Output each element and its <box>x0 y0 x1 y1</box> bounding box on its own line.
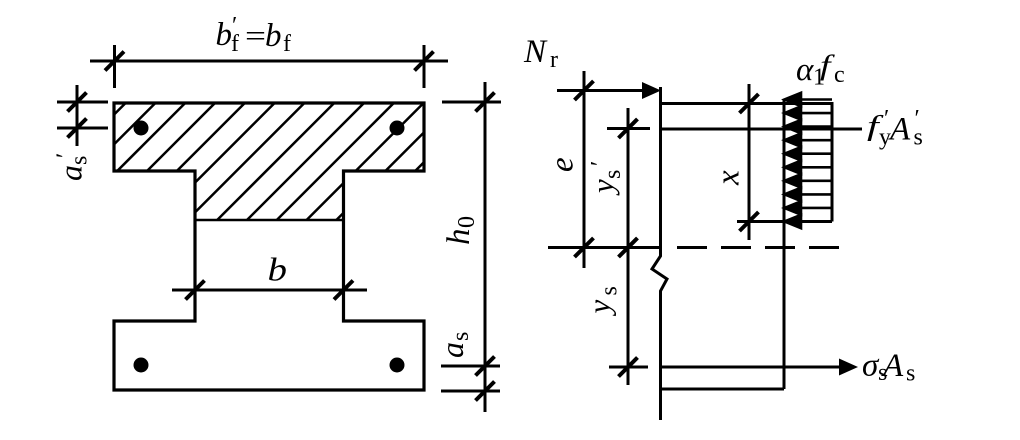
label h0 (rotated) <box>441 216 480 245</box>
Nr force line with arrow <box>557 89 646 92</box>
stress block arrows (10 left-pointing) <box>785 93 833 228</box>
svg-text:a: a <box>434 342 470 358</box>
svg-text:A: A <box>888 112 911 148</box>
tick h0 top <box>476 93 495 112</box>
dimension line x (vertical) <box>748 84 751 240</box>
tick right of b <box>334 281 353 300</box>
svg-text:e: e <box>545 157 581 172</box>
svg-text:b: b <box>265 18 282 54</box>
rebar dot top-left <box>134 121 149 136</box>
tick x top <box>740 94 759 113</box>
label sigma_s As <box>862 348 915 387</box>
tick y's bottom <box>619 238 638 257</box>
tick y's top <box>619 119 638 138</box>
section top line <box>660 102 832 105</box>
section bottom line <box>660 388 784 391</box>
label b'f = bf <box>216 13 292 57</box>
label ys (rotated) <box>582 286 623 316</box>
centroid axis: solid extension part <box>548 246 660 249</box>
svg-text:A: A <box>881 348 904 384</box>
svg-text:r: r <box>550 47 558 73</box>
tick h0 bottom / as top <box>476 357 495 376</box>
dimension a's <box>57 85 108 146</box>
stress block bottom line with x-extension <box>737 220 832 223</box>
svg-text:y: y <box>582 300 617 317</box>
label alpha1 fc <box>796 49 845 90</box>
label f'y A's <box>867 106 923 151</box>
dimension line e (vertical) <box>583 71 586 268</box>
extension line for y's top <box>607 127 650 130</box>
label Nr <box>523 34 558 73</box>
dimension b <box>172 289 367 292</box>
svg-text:y: y <box>585 179 620 196</box>
tick top of a's <box>68 93 87 112</box>
centroid axis: dashed part <box>677 246 842 249</box>
label y's (rotated) <box>585 161 626 196</box>
stress block right edge <box>831 102 834 222</box>
tick x bottom <box>740 212 759 231</box>
svg-text:b: b <box>268 251 287 288</box>
tick left of b'f <box>105 52 124 71</box>
tick ys bottom <box>619 358 638 377</box>
dimension b'f=bf line <box>90 45 448 88</box>
hatch bottom line (stress block depth in web) <box>195 219 344 222</box>
svg-text:N: N <box>523 34 548 70</box>
svg-text:h: h <box>441 229 477 246</box>
dimension h0 and as vertical line <box>441 82 501 412</box>
svg-text:′: ′ <box>587 161 613 166</box>
tick bottom of a's <box>68 119 87 138</box>
I-section outline <box>114 103 424 390</box>
svg-text:0: 0 <box>454 216 480 228</box>
tick right of b'f <box>415 52 434 71</box>
svg-text:x: x <box>711 170 747 186</box>
dimension line y's / ys (vertical) <box>627 108 630 385</box>
main section left edge vertical line with break <box>652 87 667 420</box>
label a's (rotated) <box>53 153 93 181</box>
tick e top <box>575 81 594 100</box>
section right edge vertical line <box>783 100 786 389</box>
label x (rotated) <box>711 170 747 186</box>
label e (rotated) <box>545 157 581 172</box>
tick as bottom <box>476 382 495 401</box>
extension line for ys bottom <box>609 366 648 369</box>
svg-text:c: c <box>834 62 845 88</box>
svg-text:s: s <box>67 156 93 165</box>
tick left of b <box>186 281 205 300</box>
svg-text:b: b <box>216 17 233 53</box>
hatch of compression zone <box>0 95 491 235</box>
svg-text:s: s <box>597 286 623 295</box>
svg-text:f: f <box>231 31 239 57</box>
rebar dot bottom-left <box>134 358 149 373</box>
label as (rotated) <box>434 332 474 358</box>
svg-text:a: a <box>53 165 89 181</box>
svg-text:=: = <box>245 19 266 53</box>
svg-text:s: s <box>600 170 626 179</box>
f'y A's level line <box>660 128 862 131</box>
svg-text:s: s <box>914 125 923 151</box>
sigma_s As line with arrow <box>660 366 843 369</box>
rebar dot top-right <box>390 121 405 136</box>
rebar dot bottom-right <box>390 358 405 373</box>
tick e bottom <box>575 238 594 257</box>
svg-text:f: f <box>283 31 291 57</box>
svg-text:s: s <box>448 332 474 341</box>
svg-text:s: s <box>906 361 915 387</box>
svg-text:α: α <box>796 52 814 88</box>
